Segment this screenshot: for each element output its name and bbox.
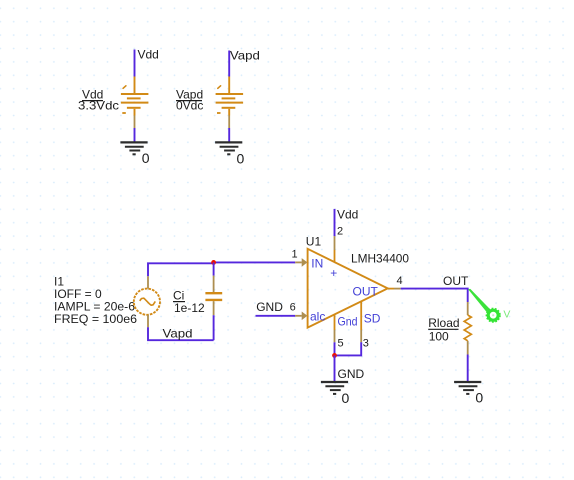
- svg-text:0: 0: [142, 150, 150, 166]
- voltage source Vapd (battery body): [216, 77, 244, 116]
- pin 1 (IN) lead and arrow: [295, 258, 307, 267]
- value label 1e-12: [174, 301, 205, 315]
- wire: I1 top to input net: [148, 263, 214, 276]
- ref label U1: [306, 234, 322, 248]
- part name LMH34400: [351, 251, 409, 265]
- value label 3.3Vdc: [78, 99, 119, 113]
- svg-text:1e-12: 1e-12: [174, 301, 205, 315]
- value labels I1 parameters: [54, 275, 137, 327]
- svg-text:0: 0: [237, 151, 245, 167]
- ground 0 (under Vdd source): [120, 142, 149, 166]
- wire: I1 bottom to Vapd net: [148, 327, 214, 340]
- ground 0 (below op-amp): [321, 382, 350, 406]
- current source I1 (sine source body): [134, 276, 160, 327]
- svg-text:+: +: [330, 266, 337, 280]
- capacitor Ci: [205, 276, 222, 316]
- pin name alc: [310, 309, 325, 323]
- wire: Vdd net stub to pin 2: [334, 209, 336, 236]
- pin 5 (Gnd) lead: [334, 315, 336, 343]
- wire: Vapd source to ground: [228, 128, 230, 142]
- pin number 1: [292, 249, 298, 261]
- svg-text:SD: SD: [364, 311, 381, 325]
- wire: pin 4 to OUT node and down to Rload: [401, 289, 468, 302]
- svg-text:1: 1: [292, 249, 298, 261]
- svg-text:GND: GND: [256, 300, 283, 314]
- svg-text:Vapd: Vapd: [230, 49, 260, 63]
- svg-text:0: 0: [342, 390, 350, 406]
- junction node (input net / Ci): [211, 260, 216, 265]
- ref label Vapd: [176, 88, 203, 102]
- svg-text:OUT: OUT: [443, 274, 469, 288]
- svg-text:IN: IN: [311, 256, 323, 270]
- svg-text:Vdd: Vdd: [337, 207, 358, 221]
- wire: Rload to ground: [467, 355, 469, 382]
- svg-text:alc: alc: [310, 309, 325, 323]
- svg-text:6: 6: [290, 301, 296, 313]
- ref label Ci: [173, 289, 185, 303]
- svg-text:GND: GND: [338, 367, 365, 381]
- wire: Vdd net stub above source V1: [134, 50, 136, 77]
- wire: pin 3 down and over to junction: [335, 342, 362, 355]
- pin name Gnd: [338, 315, 358, 329]
- pin stem (tan) of Vdd source: [134, 116, 136, 129]
- net label Vdd (op-amp supply): [337, 207, 358, 221]
- pin 6 (alc) lead and arrow: [295, 312, 307, 321]
- resistor Rload: [464, 302, 471, 355]
- svg-text:Vdd: Vdd: [138, 48, 159, 62]
- net label OUT: [443, 274, 469, 288]
- wire: Vdd source to ground: [134, 128, 136, 142]
- wire: GND to op-amp pin 6: [256, 315, 296, 317]
- svg-text:Rload: Rload: [428, 316, 459, 330]
- pin stem (tan) of Vapd source: [228, 116, 230, 129]
- value label 100: [429, 329, 449, 343]
- ground 0 (under Vapd source): [215, 142, 244, 166]
- pin number 4: [397, 275, 403, 287]
- ref label Vdd: [82, 88, 103, 102]
- pin 4 (OUT) lead: [388, 288, 401, 290]
- svg-text:100: 100: [429, 329, 449, 343]
- pin number 2: [337, 225, 343, 237]
- pin number 6: [290, 301, 296, 313]
- pin 2 (Vdd) lead: [334, 236, 336, 262]
- op-amp U1 LMH34400 (triangle body): [308, 249, 388, 328]
- pin name SD: [364, 311, 381, 325]
- svg-text:V: V: [503, 308, 510, 320]
- wire: Vapd net stub above source V2: [228, 51, 230, 77]
- power symbol GND (pin 6 net): [256, 300, 283, 314]
- svg-text:3: 3: [363, 338, 369, 350]
- svg-text:5: 5: [338, 338, 344, 350]
- ground 0 (under Rload): [454, 382, 483, 406]
- svg-text:Vapd: Vapd: [163, 327, 193, 341]
- pin 3 (SD) lead: [360, 301, 362, 342]
- pin name IN: [311, 256, 323, 270]
- wire: junction to ground: [334, 355, 336, 381]
- svg-text:4: 4: [397, 275, 403, 287]
- net label Vapd (bottom wire): [163, 327, 193, 341]
- pin number 5: [338, 338, 344, 350]
- wire: pin 5 down to junction: [334, 342, 336, 355]
- svg-text:3.3Vdc: 3.3Vdc: [78, 99, 119, 113]
- plus mark (non-inverting input): [330, 266, 337, 280]
- svg-text:U1: U1: [306, 234, 322, 248]
- pin name OUT: [353, 284, 379, 298]
- svg-text:Gnd: Gnd: [338, 315, 358, 329]
- wire: junction down to Ci: [213, 262, 215, 275]
- net label Vapd: [230, 49, 260, 63]
- svg-text:FREQ = 100e6: FREQ = 100e6: [54, 312, 137, 326]
- svg-text:OUT: OUT: [353, 284, 379, 298]
- voltage probe V (green marker): [468, 289, 510, 322]
- svg-text:0Vdc: 0Vdc: [176, 99, 203, 113]
- voltage source Vdd (battery body): [121, 77, 148, 116]
- wire: Ci bottom to Vapd net: [213, 315, 215, 340]
- net label Vdd: [138, 48, 159, 62]
- net label GND: [338, 367, 365, 381]
- junction node (pins 3/5/GND): [332, 353, 337, 358]
- svg-text:0: 0: [475, 390, 483, 406]
- svg-text:LMH34400: LMH34400: [351, 251, 409, 265]
- wire: input net to op-amp pin 1: [214, 261, 296, 263]
- value label 0Vdc: [176, 99, 203, 113]
- pin number 3: [363, 338, 369, 350]
- svg-text:2: 2: [337, 225, 343, 237]
- ref label Rload: [428, 316, 459, 330]
